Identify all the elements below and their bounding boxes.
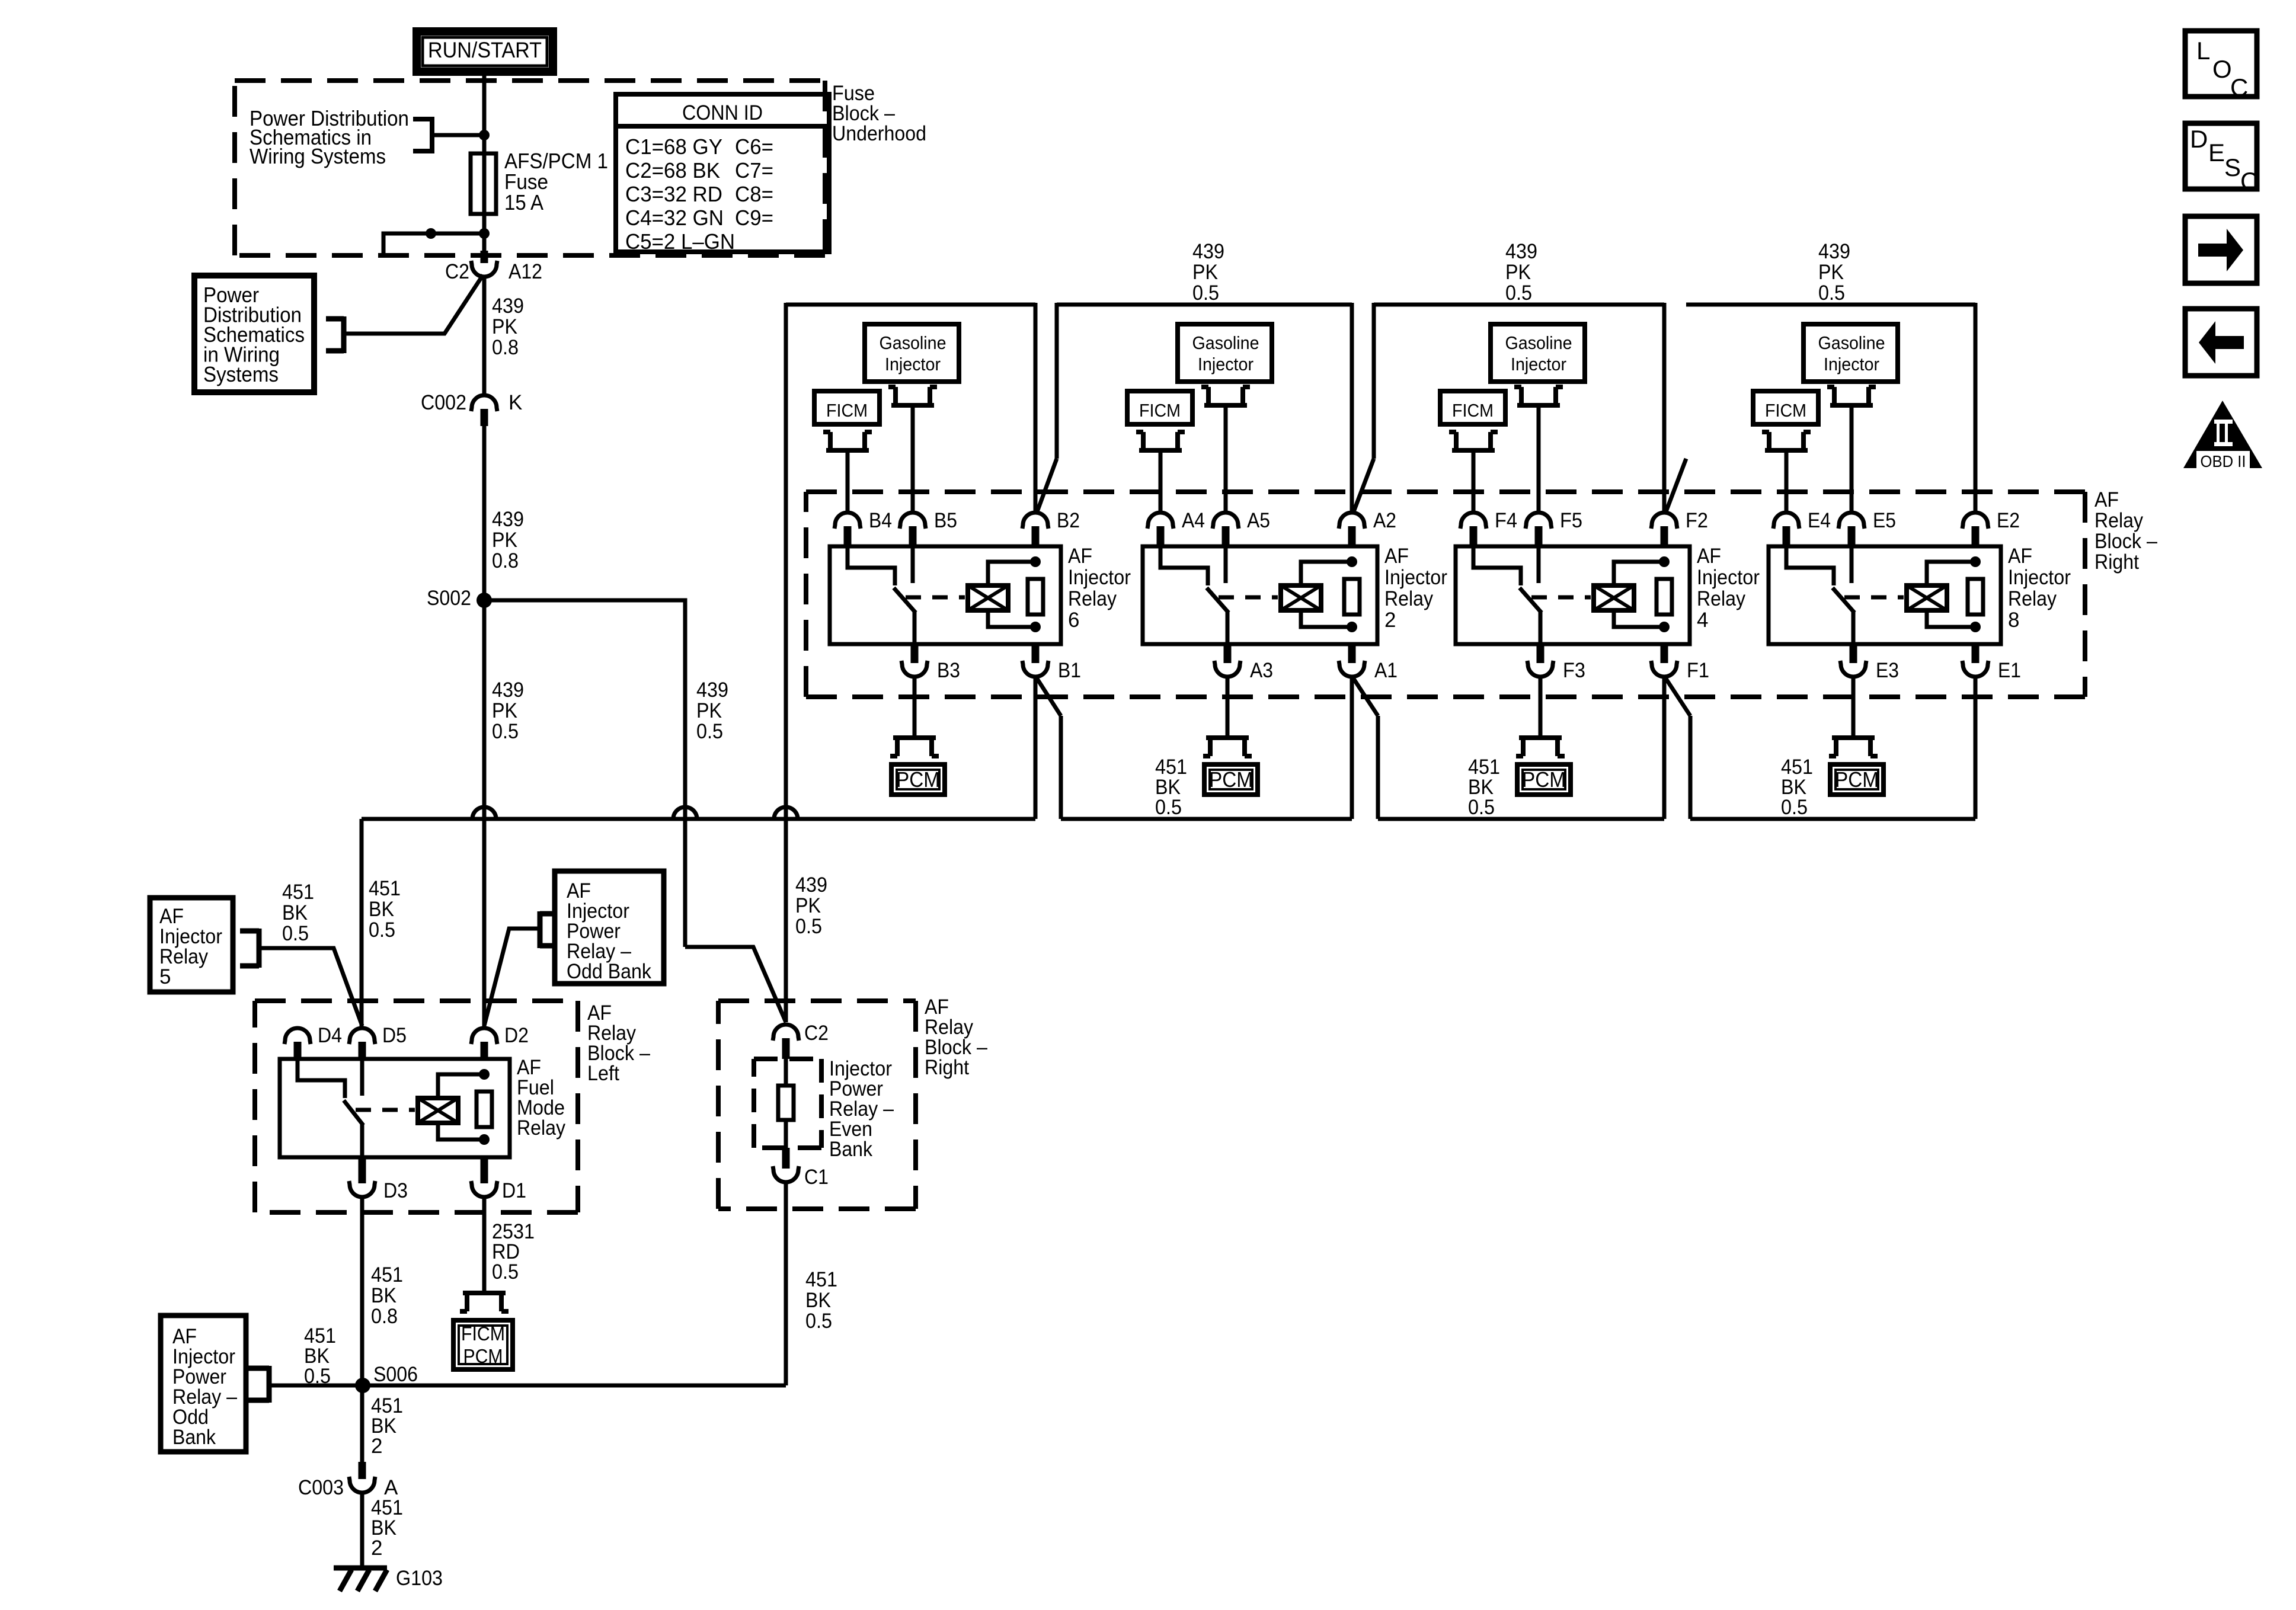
svg-text:5: 5 <box>159 965 171 988</box>
wire branch <box>432 133 484 137</box>
wire S002 branch right <box>484 600 685 947</box>
gasoline injector connector staple <box>1201 387 1250 405</box>
svg-text:439: 439 <box>492 678 524 702</box>
svg-text:C2: C2 <box>804 1022 829 1045</box>
gasoline injector connector staple <box>1514 387 1563 405</box>
back arrow icon <box>2185 309 2257 376</box>
svg-text:0.5: 0.5 <box>795 915 822 938</box>
svg-text:Relay: Relay <box>1697 587 1745 610</box>
svg-text:8: 8 <box>2008 609 2019 632</box>
wire hop at cell1 left edge <box>774 807 798 819</box>
svg-text:Injector: Injector <box>1068 566 1131 589</box>
svg-text:Block –: Block – <box>2094 530 2157 553</box>
svg-text:PCM: PCM <box>1209 767 1253 792</box>
wire C003 to G103 <box>360 1493 364 1568</box>
connector D3 <box>349 1181 375 1197</box>
wire diagonal feed from next cell <box>1353 459 1374 513</box>
wire gasoline injector to pin <box>1850 405 1854 514</box>
wire F3 to PCM <box>1539 677 1543 738</box>
svg-text:C7=: C7= <box>735 158 773 183</box>
svg-text:15 A: 15 A <box>504 190 543 215</box>
svg-text:D4: D4 <box>318 1024 342 1047</box>
PCM connector staple <box>1203 738 1252 756</box>
wire A1 down to ground bus <box>1350 677 1354 819</box>
wire right edge down to coil pin <box>1974 303 1978 514</box>
wire 439 PK feed top edge (cell A2) <box>1057 303 1352 307</box>
wire 451 BK bus corner down to D5 <box>360 819 364 1028</box>
connector C002 / K <box>471 395 497 411</box>
wire S006 bus to even bank return <box>363 1384 786 1388</box>
svg-text:0.5: 0.5 <box>1192 281 1219 305</box>
wire relay5 to D5 <box>259 948 362 1026</box>
FICM connector staple <box>1762 432 1811 450</box>
svg-text:BK: BK <box>371 1284 396 1307</box>
svg-text:Gasoline: Gasoline <box>1818 332 1885 353</box>
AF Fuel Mode Relay box <box>280 1059 510 1157</box>
svg-text:0.8: 0.8 <box>492 336 519 359</box>
bracket power distribution <box>326 316 344 353</box>
wire B1 down to ground bus <box>1034 677 1038 819</box>
ground G103 <box>334 1568 387 1591</box>
relay switch <box>1160 546 1208 585</box>
svg-text:0.5: 0.5 <box>1468 796 1495 819</box>
PCM component (cell F2) <box>1517 764 1571 795</box>
svg-text:451: 451 <box>805 1268 837 1291</box>
wire 439 PK cell1 left edge down to C2 <box>784 303 788 1022</box>
connector A1 <box>1339 661 1365 677</box>
FICM component (cell F2) <box>1440 391 1505 424</box>
relay coil resistor <box>1344 579 1360 614</box>
svg-text:Injector: Injector <box>1511 354 1566 375</box>
svg-text:Odd Bank: Odd Bank <box>567 960 651 983</box>
wire ground bus (cell A2) <box>1061 817 1352 821</box>
connector D5 <box>349 1028 375 1044</box>
svg-text:D1: D1 <box>502 1179 526 1202</box>
relay coil loop <box>988 562 1035 585</box>
relay coil resistor <box>1657 579 1672 614</box>
svg-text:0.5: 0.5 <box>492 1260 519 1283</box>
svg-text:PK: PK <box>1818 261 1844 284</box>
svg-text:Systems: Systems <box>203 362 279 386</box>
svg-text:C2: C2 <box>445 260 469 283</box>
relay switch <box>1786 546 1834 585</box>
svg-text:B5: B5 <box>934 509 957 532</box>
svg-text:AF: AF <box>2008 545 2032 568</box>
wire gasoline injector to pin <box>1537 405 1541 514</box>
Gasoline Injector component (cell F2) <box>1491 324 1585 382</box>
bracket to Power Distribution Schematics <box>413 117 432 153</box>
wire E1 down to ground bus <box>1974 677 1978 819</box>
connector B5 <box>900 513 926 529</box>
svg-text:D2: D2 <box>504 1024 529 1047</box>
relay coil loop <box>438 1074 484 1098</box>
wire S002 down to D2 <box>482 600 487 1028</box>
splice S006 <box>355 1378 370 1393</box>
connector C003 / A <box>349 1477 375 1493</box>
svg-text:PK: PK <box>492 529 517 552</box>
svg-text:AF: AF <box>2094 488 2119 511</box>
svg-text:K: K <box>509 391 522 414</box>
wire next cell ground drop <box>1376 716 1380 819</box>
PCM component (cell B2) <box>891 764 945 795</box>
svg-text:Gasoline: Gasoline <box>880 332 946 353</box>
relay coil resistor <box>1968 579 1983 614</box>
connector C2 (even bank) <box>773 1025 799 1041</box>
wire diagonal ground to next cell <box>1353 678 1378 716</box>
relay actuator dashed link <box>1844 596 1904 600</box>
wire left edge down <box>784 303 788 459</box>
svg-text:451: 451 <box>371 1263 403 1286</box>
svg-text:C002: C002 <box>421 391 466 414</box>
AF Injector Relay 5 box <box>150 898 233 992</box>
relay solenoid <box>1594 585 1634 610</box>
svg-text:F3: F3 <box>1563 659 1585 682</box>
svg-text:0.8: 0.8 <box>371 1305 398 1328</box>
svg-text:PK: PK <box>492 699 517 722</box>
AF Injector Power Relay - Odd Bank box (upper) <box>555 871 664 984</box>
wire left edge down <box>1372 303 1376 459</box>
svg-text:0.5: 0.5 <box>492 720 519 743</box>
svg-text:Bank: Bank <box>172 1426 216 1449</box>
FICM PCM connector staple <box>460 1293 509 1311</box>
Gasoline Injector component (cell A2) <box>1178 324 1272 382</box>
wire E3 to PCM <box>1851 677 1856 738</box>
svg-text:PK: PK <box>696 699 722 722</box>
wire right edge down to coil pin <box>1350 303 1354 514</box>
gasoline injector connector staple <box>888 387 937 405</box>
svg-text:Injector: Injector <box>1697 566 1760 589</box>
connector A2 <box>1339 513 1365 529</box>
svg-text:PK: PK <box>492 315 517 338</box>
relay actuator dashed link <box>356 1108 415 1112</box>
relay coil resistor <box>1028 579 1043 614</box>
svg-text:0.5: 0.5 <box>304 1365 331 1388</box>
svg-text:G103: G103 <box>396 1567 443 1590</box>
FICM component (cell A2) <box>1127 391 1192 424</box>
svg-text:PCM: PCM <box>1835 767 1879 792</box>
bracket odd bank relay <box>540 911 555 948</box>
relay switch <box>298 1059 345 1098</box>
PCM connector staple <box>1516 738 1565 756</box>
wire fuse to connector C2 <box>482 233 487 251</box>
connector E5 <box>1838 513 1865 529</box>
gasoline injector connector staple <box>1827 387 1876 405</box>
wire F1 down to ground bus <box>1662 677 1667 819</box>
svg-text:439: 439 <box>1505 240 1537 263</box>
wire FICM to pin <box>1785 450 1789 514</box>
svg-text:C1: C1 <box>804 1166 829 1189</box>
svg-text:439: 439 <box>492 295 524 318</box>
power source RUN/START <box>417 31 553 72</box>
svg-text:0.5: 0.5 <box>1155 796 1182 819</box>
svg-text:S006: S006 <box>373 1363 418 1386</box>
AF Injector Power Relay - Odd Bank box (lower) <box>161 1315 246 1452</box>
FICM connector staple <box>1136 432 1185 450</box>
svg-text:6: 6 <box>1068 609 1079 632</box>
wire next cell ground drop <box>1059 716 1063 819</box>
svg-text:Underhood: Underhood <box>832 122 926 145</box>
svg-text:PK: PK <box>1505 261 1531 284</box>
svg-text:Injector: Injector <box>1198 354 1253 375</box>
svg-text:Injector: Injector <box>885 354 941 375</box>
connector A3 <box>1214 661 1240 677</box>
connector B2 <box>1022 513 1048 529</box>
forward arrow icon <box>2185 216 2257 283</box>
connector E4 <box>1773 513 1799 529</box>
svg-text:439: 439 <box>492 508 524 531</box>
svg-text:C9=: C9= <box>735 206 773 230</box>
svg-text:E5: E5 <box>1873 509 1896 532</box>
svg-text:F5: F5 <box>1560 509 1582 532</box>
svg-text:0.5: 0.5 <box>1781 796 1808 819</box>
connector D4 <box>284 1028 311 1044</box>
svg-text:E2: E2 <box>1997 509 2020 532</box>
svg-text:C1=68 GY: C1=68 GY <box>625 135 722 159</box>
svg-text:FICM: FICM <box>1765 400 1806 421</box>
relay actuator dashed link <box>1219 596 1278 600</box>
bracket AF Injector Relay 5 <box>240 929 259 968</box>
connector A5 <box>1213 513 1239 529</box>
svg-text:PCM: PCM <box>463 1345 503 1367</box>
wire FICM to pin <box>1472 450 1476 514</box>
connector F5 <box>1526 513 1552 529</box>
svg-text:Relay: Relay <box>1068 587 1117 610</box>
wire right edge down to coil pin <box>1034 303 1038 514</box>
wire odd bank relay to D2 <box>484 929 540 1026</box>
wire 439 PK feed top edge (cell E2) <box>1686 303 1975 307</box>
svg-text:2: 2 <box>371 1435 382 1458</box>
svg-text:C2=68 BK: C2=68 BK <box>625 158 720 183</box>
connector D2 <box>471 1028 497 1044</box>
bracket odd bank lower <box>246 1366 269 1403</box>
fuse block underhood dashed box <box>235 81 825 255</box>
svg-text:A5: A5 <box>1247 509 1270 532</box>
svg-text:RUN/START: RUN/START <box>428 38 542 62</box>
connector B3 <box>901 661 928 677</box>
connector C1 (even bank) <box>773 1166 799 1182</box>
svg-text:0.5: 0.5 <box>805 1310 832 1333</box>
svg-text:E4: E4 <box>1808 509 1831 532</box>
CONN ID table <box>616 94 829 252</box>
connector A4 <box>1147 513 1173 529</box>
FICM connector staple <box>823 432 872 450</box>
svg-text:AF: AF <box>1697 545 1721 568</box>
wire C002 to S002 <box>482 426 487 600</box>
svg-text:2: 2 <box>371 1537 382 1560</box>
svg-text:C3=32 RD: C3=32 RD <box>625 182 722 206</box>
svg-text:Relay: Relay <box>2008 587 2057 610</box>
connector E3 <box>1840 661 1866 677</box>
wire odd bank to S006 <box>269 1384 363 1388</box>
svg-text:0.5: 0.5 <box>369 918 395 942</box>
svg-text:D: D <box>2190 125 2208 153</box>
DESC icon <box>2185 123 2257 189</box>
svg-text:Relay: Relay <box>1384 587 1433 610</box>
wire next cell ground drop <box>1689 716 1693 819</box>
connector E2 <box>1962 513 1988 529</box>
PCM connector staple <box>1829 738 1878 756</box>
svg-text:451: 451 <box>282 881 314 904</box>
svg-text:FICM: FICM <box>1139 400 1181 421</box>
AF Relay Block - Right dashed box (bottom) <box>718 1001 916 1209</box>
svg-text:4: 4 <box>1697 609 1708 632</box>
connector B4 <box>834 513 861 529</box>
svg-text:PCM: PCM <box>896 767 940 792</box>
wire C2 to C1 through coil <box>784 1059 788 1148</box>
FICM component (cell B2) <box>814 391 880 424</box>
svg-text:439: 439 <box>1818 240 1850 263</box>
svg-text:FICM: FICM <box>1452 400 1494 421</box>
AF Injector Relay 6 box <box>830 546 1061 644</box>
svg-text:Relay: Relay <box>2094 509 2143 532</box>
wire diagonal feed from next cell <box>1037 459 1057 513</box>
wire 439 PK feed top edge (cell F2) <box>1374 303 1664 307</box>
relay actuator dashed link <box>906 596 965 600</box>
relay solenoid <box>968 585 1008 610</box>
Gasoline Injector component (cell B2) <box>865 324 959 382</box>
svg-text:0.8: 0.8 <box>492 549 519 572</box>
wire A3 to PCM <box>1226 677 1230 738</box>
relay solenoid <box>1907 585 1947 610</box>
connector B1 <box>1022 661 1048 677</box>
wire B3 to PCM <box>913 677 917 738</box>
relay solenoid <box>1281 585 1321 610</box>
FICM component (cell E2) <box>1753 391 1818 424</box>
svg-text:BK: BK <box>282 901 308 924</box>
svg-text:C003: C003 <box>298 1476 344 1499</box>
Gasoline Injector component (cell E2) <box>1803 324 1898 382</box>
svg-text:0.5: 0.5 <box>696 720 723 743</box>
svg-text:F2: F2 <box>1686 509 1708 532</box>
wire hop at branch feed <box>673 807 697 819</box>
svg-text:E1: E1 <box>1998 659 2021 682</box>
svg-text:Injector: Injector <box>1824 354 1879 375</box>
node branch to power distribution <box>479 130 490 140</box>
svg-text:Right: Right <box>925 1056 969 1079</box>
wire jog to fuse block edge <box>383 233 484 255</box>
svg-text:D3: D3 <box>383 1179 408 1202</box>
relay solenoid <box>418 1098 458 1123</box>
relay switch <box>848 546 895 585</box>
connector F1 <box>1651 661 1677 677</box>
svg-text:B2: B2 <box>1057 509 1080 532</box>
wire right edge down to coil pin <box>1662 303 1667 514</box>
svg-text:CONN ID: CONN ID <box>682 101 763 124</box>
svg-text:A12: A12 <box>509 260 542 283</box>
wire diagonal ground to next cell <box>1665 678 1690 716</box>
svg-text:S: S <box>2224 153 2241 181</box>
PCM component (cell A2) <box>1204 764 1258 795</box>
AF Relay Block - Right dashed box <box>806 492 2085 697</box>
svg-text:E: E <box>2208 139 2225 167</box>
svg-text:BK: BK <box>369 898 394 921</box>
FICM connector staple <box>1449 432 1498 450</box>
svg-text:F4: F4 <box>1495 509 1517 532</box>
svg-text:BK: BK <box>805 1289 831 1312</box>
splice S002 <box>477 593 492 608</box>
connector D1 <box>471 1181 497 1197</box>
wire D3 down to S006 <box>360 1197 364 1385</box>
Injector Power Relay - Even Bank dashed box <box>754 1059 821 1148</box>
wire C1 down to S006 bus <box>784 1182 788 1385</box>
svg-text:439: 439 <box>795 873 827 897</box>
svg-text:S002: S002 <box>427 587 471 610</box>
connector F2 <box>1651 513 1677 529</box>
AF Injector Relay 8 box <box>1769 546 2001 644</box>
wire elbow to even-bank C2 <box>685 947 786 1022</box>
svg-text:C6=: C6= <box>735 135 773 159</box>
wire diagonal feed from next cell <box>1665 459 1686 513</box>
svg-text:PK: PK <box>795 894 821 917</box>
wire diagonal to power distribution schematics <box>345 275 483 334</box>
svg-text:439: 439 <box>696 678 728 702</box>
wire ground bus (cell E2) <box>1690 817 1975 821</box>
relay switch <box>1473 546 1521 585</box>
AF Relay Block - Left dashed box <box>255 1001 578 1212</box>
svg-text:PK: PK <box>1192 261 1218 284</box>
relay coil loop <box>1927 562 1975 585</box>
svg-text:PCM: PCM <box>1522 767 1566 792</box>
svg-text:A4: A4 <box>1182 509 1205 532</box>
PCM component (cell E2) <box>1830 764 1884 795</box>
wire hop at S002 feed <box>472 807 496 819</box>
relay coil resistor <box>477 1092 492 1127</box>
svg-text:A3: A3 <box>1250 659 1273 682</box>
wire C2 to C002 <box>482 277 487 395</box>
svg-text:2: 2 <box>1384 609 1396 632</box>
wire gasoline injector to pin <box>1224 405 1228 514</box>
svg-text:OBD II: OBD II <box>2201 452 2246 470</box>
relay coil loop <box>1301 562 1352 585</box>
OBD II icon <box>2183 401 2262 468</box>
svg-text:Right: Right <box>2094 550 2139 574</box>
connector F4 <box>1460 513 1486 529</box>
svg-text:C5=2 L–GN: C5=2 L–GN <box>625 229 735 254</box>
svg-text:C: C <box>2230 73 2248 101</box>
wire left edge down <box>1055 303 1059 459</box>
wire S006 down to C003 <box>360 1385 364 1462</box>
svg-text:AF: AF <box>1384 545 1409 568</box>
wire D1 to FICM PCM <box>482 1197 487 1293</box>
node stub <box>426 228 436 239</box>
svg-text:F1: F1 <box>1687 659 1709 682</box>
svg-text:B4: B4 <box>869 509 892 532</box>
AF Injector Relay 2 box <box>1143 546 1377 644</box>
node below fuse <box>479 228 490 239</box>
svg-text:Left: Left <box>587 1062 619 1085</box>
svg-text:FICM: FICM <box>826 400 868 421</box>
svg-text:Wiring Systems: Wiring Systems <box>250 144 386 168</box>
power distribution schematics box <box>194 276 314 392</box>
svg-text:C: C <box>2240 167 2258 195</box>
svg-text:C4=32 GN: C4=32 GN <box>625 206 724 230</box>
svg-text:A2: A2 <box>1373 509 1396 532</box>
svg-text:B3: B3 <box>937 659 960 682</box>
FICM PCM component <box>453 1320 513 1369</box>
svg-text:0.5: 0.5 <box>1505 281 1532 305</box>
svg-text:439: 439 <box>1192 240 1224 263</box>
svg-text:O: O <box>2212 55 2232 83</box>
svg-text:D5: D5 <box>382 1024 407 1047</box>
svg-text:451: 451 <box>369 877 401 900</box>
svg-text:FICM: FICM <box>461 1323 505 1345</box>
svg-text:0.5: 0.5 <box>282 922 309 945</box>
svg-text:Injector: Injector <box>2008 566 2071 589</box>
wire diagonal ground to next cell <box>1037 678 1061 716</box>
connector C2 / A12 <box>471 261 497 277</box>
wire 439 PK feed top edge (cell B2) <box>786 303 1035 307</box>
svg-text:Injector: Injector <box>1384 566 1447 589</box>
